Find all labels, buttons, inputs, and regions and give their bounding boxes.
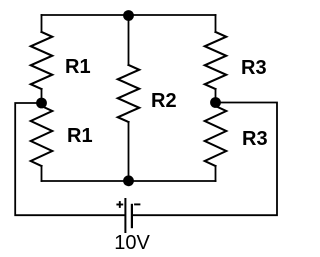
wire left branch top lead <box>41 15 43 32</box>
node right junction dot <box>210 97 221 108</box>
node top junction dot <box>123 10 134 21</box>
resistor R3 (top right) <box>205 32 227 89</box>
svg-text:R3: R3 <box>242 128 268 150</box>
wire middle branch bottom lead <box>128 122 130 181</box>
resistor R3 (bottom right) <box>205 106 227 166</box>
resistor R2 (middle) <box>118 65 140 122</box>
wire left outer loop <box>15 103 124 215</box>
wire right branch mid lead <box>215 89 217 103</box>
wire right branch top lead <box>215 15 217 32</box>
battery V1 plates <box>125 198 131 233</box>
svg-text:10V: 10V <box>114 232 150 254</box>
wire top rail <box>42 14 216 16</box>
label battery plus sign <box>116 201 123 208</box>
wire left branch mid lead <box>41 89 43 103</box>
resistor R1 (top left) <box>31 32 53 89</box>
wire bottom inner rail <box>42 180 216 182</box>
label battery minus sign <box>134 203 140 205</box>
wire middle branch top lead <box>128 15 130 65</box>
svg-text:R3: R3 <box>241 57 267 79</box>
svg-text:R1: R1 <box>65 56 91 78</box>
resistor R1 (bottom left) <box>31 106 53 166</box>
node bottom junction dot <box>123 175 134 186</box>
svg-text:R1: R1 <box>67 125 93 147</box>
wire right outer loop <box>133 103 277 216</box>
node left junction dot <box>36 98 47 109</box>
svg-text:R2: R2 <box>151 90 177 112</box>
wire right branch bottom lead <box>215 166 217 181</box>
wire left branch bottom lead <box>41 166 43 181</box>
